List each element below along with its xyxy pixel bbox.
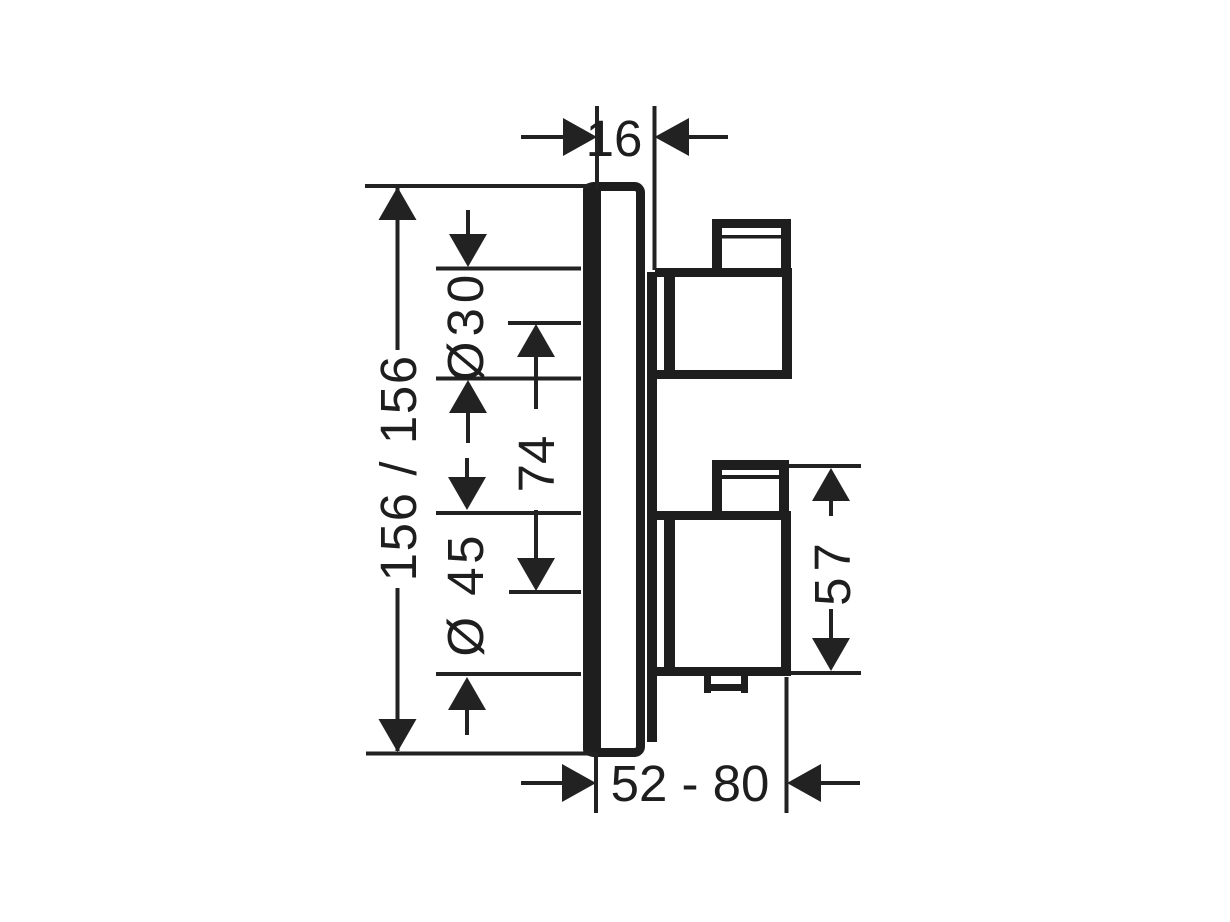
dim 156/156: top extension line [365, 184, 591, 188]
dim 57: upper arrow (points up) [812, 468, 850, 516]
lower handle cap [712, 460, 789, 516]
dim 16: left arrow [521, 118, 597, 156]
svg-text:16: 16 [586, 110, 643, 167]
dim D45: upper arrow (points down) [448, 458, 486, 510]
top handle cap [712, 219, 791, 272]
dim D30: bottom extension line [436, 377, 581, 381]
lower handle lever tab [704, 672, 748, 693]
dim 74: lower tick line [509, 590, 581, 594]
svg-text:Ø30: Ø30 [437, 270, 494, 381]
dim D45: bottom extension line [436, 672, 581, 676]
svg-text:57: 57 [804, 537, 861, 606]
dim 156/156: dimension line upper segment [396, 187, 400, 350]
dim 52-80: left arrow [521, 764, 596, 802]
dim 57: bottom extension line [791, 671, 861, 675]
dim 74: upper arrow (points up) [517, 324, 555, 409]
dim 16: extension line right [653, 106, 657, 270]
sleeve bar between plate and handles [647, 272, 657, 742]
dim D45: lower arrow (points up) [448, 677, 486, 735]
dim 156/156: bottom arrow [379, 719, 417, 752]
dim D30: lower arrow (points up) [449, 380, 487, 443]
dim 52-80: left extension line [594, 752, 598, 813]
dim 74: lower arrow (points down) [517, 510, 555, 591]
dim 57: lower arrow (points down) [812, 609, 850, 671]
dim 52-80: right arrow [787, 764, 860, 802]
dim 156/156: bottom extension line [366, 752, 597, 756]
dim 156/156: dimension line lower segment [396, 588, 400, 751]
dim D30: upper arrow (points down) [449, 210, 487, 267]
dim 74: upper tick line [508, 321, 581, 325]
svg-text:74: 74 [508, 436, 565, 493]
dim D30: top extension line [436, 267, 581, 271]
lower handle body [655, 511, 791, 676]
dim 52-80: right extension line [785, 677, 789, 813]
svg-text:156 / 156: 156 / 156 [370, 354, 427, 581]
dim 57: top extension line [789, 464, 861, 468]
dim 156/156: top arrow [379, 187, 417, 220]
svg-text:Ø 45: Ø 45 [437, 532, 494, 657]
escutcheon plate (side view) [583, 183, 641, 756]
top handle body [655, 268, 792, 379]
dim 16: extension line left [595, 106, 599, 189]
svg-text:52 - 80: 52 - 80 [611, 755, 770, 812]
dim 16: right arrow [655, 118, 729, 156]
dim D45: top extension line [436, 511, 581, 515]
